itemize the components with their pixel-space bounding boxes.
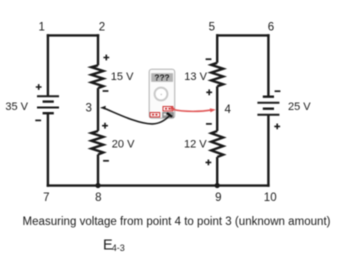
wire: right branch of left loop, top segment <box>97 34 99 65</box>
resistor R1 15V <box>91 65 103 88</box>
svg-text:???: ??? <box>154 72 169 82</box>
R2 plus sign <box>102 123 108 129</box>
multimeter display <box>151 73 173 82</box>
battery B1 plus sign <box>36 84 42 90</box>
battery B2 plus sign <box>274 124 280 130</box>
resistor R4 12V <box>211 131 223 157</box>
junction dot node 8 <box>95 183 100 188</box>
svg-text:5: 5 <box>209 21 215 33</box>
R2 minus sign <box>103 160 109 162</box>
black test lead arrowhead at node 3 <box>100 106 106 110</box>
R3 minus sign <box>206 58 212 60</box>
svg-text:1: 1 <box>38 21 44 33</box>
wire: right branch lower (battery B2 down to node 10) <box>267 115 269 187</box>
svg-text:6: 6 <box>268 21 274 33</box>
wire: top of left loop (node 1 to node 2) <box>47 34 99 36</box>
resistor R3 13V <box>211 63 223 87</box>
wire: below R2 to node 8 <box>97 155 99 187</box>
wire: left branch lower (battery down to node 7) <box>47 113 49 187</box>
wire: bottom rail (node 7 - 8 - 9 - 10) <box>47 184 270 186</box>
wire: left branch of right loop, top segment <box>216 34 218 63</box>
svg-text:25 V: 25 V <box>288 101 311 113</box>
multimeter dial center dot <box>161 94 162 95</box>
red test lead arrowhead at node 4 <box>210 108 216 112</box>
svg-text:12 V: 12 V <box>184 138 207 150</box>
wire: between R3 and R4 through node 4 <box>216 86 218 131</box>
svg-text:8: 8 <box>95 192 101 204</box>
R1 minus sign <box>103 90 109 92</box>
R3 plus sign <box>206 89 212 95</box>
wire: between R1 and R2 through node 3 <box>97 88 99 131</box>
multimeter jack COM (dark, lower middle) <box>163 112 174 117</box>
svg-text:4: 4 <box>224 104 231 116</box>
resistor R2 20V <box>91 131 103 155</box>
R4 minus sign <box>206 123 212 125</box>
battery B1 minus sign <box>35 119 41 121</box>
svg-text:9: 9 <box>215 192 221 204</box>
svg-text:10: 10 <box>264 192 277 204</box>
svg-text:7: 7 <box>43 192 49 204</box>
svg-text:2: 2 <box>99 21 105 33</box>
red plug at VA jack <box>171 107 175 111</box>
svg-text:13 V: 13 V <box>184 71 207 83</box>
junction dot node 9 <box>215 183 220 188</box>
multimeter M1 body <box>149 69 175 118</box>
wire: below R4 to node 9 <box>216 157 218 187</box>
svg-text:15 V: 15 V <box>111 71 134 83</box>
battery B2 25V <box>257 97 279 115</box>
battery B2 minus sign <box>275 90 281 92</box>
svg-text:Measuring voltage from point 4: Measuring voltage from point 4 to point … <box>23 216 331 228</box>
svg-text:3: 3 <box>85 103 91 115</box>
battery B1 35V <box>37 96 59 113</box>
wire: right branch upper (node 6 down to battery B2) <box>267 34 269 96</box>
svg-text:4-3: 4-3 <box>112 243 125 253</box>
red test lead from VA jack to node 4 <box>173 109 211 111</box>
black test lead from COM jack to node 3 <box>104 108 169 124</box>
R4 plus sign <box>206 160 212 166</box>
R1 plus sign <box>103 55 109 61</box>
svg-text:35 V: 35 V <box>5 101 28 113</box>
svg-text:20 V: 20 V <box>112 138 135 150</box>
wire: top of right loop (node 5 to node 6) <box>216 34 270 36</box>
multimeter dial <box>155 88 168 101</box>
multimeter jack A (red, lower left) <box>150 113 160 118</box>
multimeter jack VA (red, upper) <box>163 107 173 111</box>
wire: left branch upper (node 1 down to battery) <box>47 34 49 95</box>
